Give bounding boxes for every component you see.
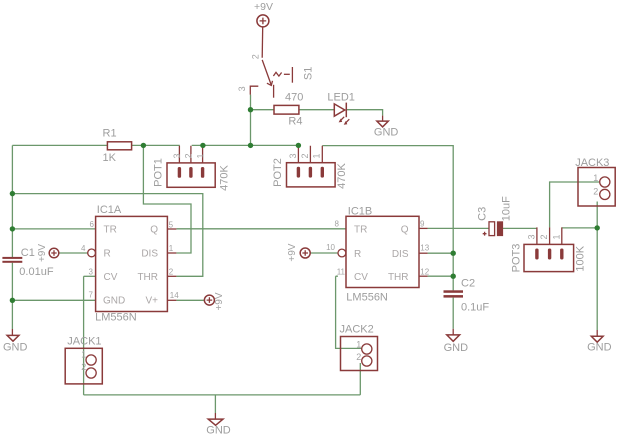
IC1A pin stub 2 THR <box>167 275 176 277</box>
wire main horizontal left segment <box>12 144 107 146</box>
svg-text:THR: THR <box>137 272 158 283</box>
capacitor C3 polarized plates <box>489 222 495 236</box>
svg-text:2: 2 <box>184 153 194 158</box>
svg-text:C2: C2 <box>461 277 475 289</box>
svg-text:GND: GND <box>587 342 612 354</box>
potentiometer POT3 box <box>524 244 574 271</box>
POT3 pin stubs <box>537 227 562 244</box>
switch S1 lever <box>262 60 271 85</box>
JACK2 pin 2 circle <box>362 356 372 366</box>
svg-text:Q: Q <box>150 225 158 236</box>
svg-text:POT2: POT2 <box>272 158 284 187</box>
wire left vertical lower <box>11 263 13 329</box>
switch S1 fixed contact <box>273 85 275 98</box>
svg-text:V+: V+ <box>145 296 158 307</box>
svg-text:13: 13 <box>420 244 429 253</box>
svg-text:POT1: POT1 <box>153 158 165 187</box>
svg-text:CV: CV <box>354 272 368 283</box>
wire IC1A Q to IC1B TR <box>176 228 346 230</box>
svg-text:470: 470 <box>285 92 303 104</box>
IC1B R inversion bubble pin 10 <box>338 249 346 257</box>
power +9V at IC1B R <box>300 248 310 258</box>
svg-text:6: 6 <box>90 220 95 229</box>
svg-text:CV: CV <box>104 272 118 283</box>
svg-text:GND: GND <box>103 296 125 307</box>
svg-text:+9V: +9V <box>214 292 225 310</box>
wire THR1 net <box>12 194 202 277</box>
wire LED1 to GND corner <box>346 110 382 116</box>
svg-text:DIS: DIS <box>141 249 158 260</box>
svg-text:JACK3: JACK3 <box>575 157 609 169</box>
svg-text:3: 3 <box>89 268 94 277</box>
wire POT3 pin2 to JACK3 pin1 <box>550 182 599 227</box>
wire IC1B Q to C3 <box>428 227 489 229</box>
svg-text:+9V: +9V <box>287 243 298 261</box>
JACK3 pin 2 circle <box>600 189 610 199</box>
svg-text:100K: 100K <box>575 245 587 271</box>
svg-text:+9V: +9V <box>254 1 273 13</box>
capacitor C3 plus mark <box>483 232 487 236</box>
wire TR1 <box>12 228 95 230</box>
wire main horizontal R1-to-POT1 <box>132 144 180 146</box>
IC1B pin stub 13 DIS <box>419 252 428 254</box>
ground bottom center <box>214 413 216 419</box>
JACK2 pin 1 circle <box>362 344 372 354</box>
op-amp/IC box IC1B <box>346 216 419 287</box>
svg-text:C1: C1 <box>21 247 35 259</box>
svg-text:THR: THR <box>388 272 409 283</box>
POT1 pin stubs <box>179 146 202 163</box>
potentiometer POT1 box <box>167 163 215 187</box>
svg-text:+9V: +9V <box>37 244 48 262</box>
svg-text:2: 2 <box>250 54 260 59</box>
switch S1 pin3 bracket <box>250 86 258 94</box>
wire CV2 to JACK2 pin1 <box>336 276 362 348</box>
svg-text:3: 3 <box>288 153 298 158</box>
IC1A pin stub 14 V+ <box>167 299 176 301</box>
wire main horizontal POT1pin2-to-POT2pin3 <box>192 144 299 146</box>
ground right below JACK3 <box>596 330 598 336</box>
svg-text:LM556N: LM556N <box>95 311 137 323</box>
svg-text:C3: C3 <box>477 207 489 221</box>
JACK1 pin 1 circle <box>86 355 96 365</box>
svg-text:11: 11 <box>337 268 346 277</box>
IC1B pin stub 12 THR <box>419 275 428 277</box>
svg-text:1: 1 <box>551 234 561 239</box>
jack JACK2 box <box>341 337 378 371</box>
svg-text:JACK2: JACK2 <box>340 323 374 335</box>
power +9V at IC1A R <box>49 248 59 258</box>
svg-text:3: 3 <box>526 234 536 239</box>
wire R4 to LED1 <box>299 109 334 111</box>
svg-text:5: 5 <box>169 221 174 230</box>
resistor R4 body <box>274 105 299 114</box>
svg-text:Q: Q <box>401 224 409 235</box>
IC1B pin stub 9 Q <box>419 227 428 229</box>
wire below C2 <box>452 298 454 329</box>
svg-text:1: 1 <box>312 153 322 158</box>
svg-text:0.01uF: 0.01uF <box>19 266 54 278</box>
IC1A R inversion bubble pin 4 <box>88 249 96 257</box>
wire switch to main wire <box>250 95 252 146</box>
svg-text:2: 2 <box>81 362 86 372</box>
svg-text:S1: S1 <box>302 67 314 80</box>
wire right vertical JACK3 pin2 to GND <box>596 202 598 331</box>
svg-text:POT3: POT3 <box>511 244 523 273</box>
wire JACK2 pin2 riser <box>359 363 361 395</box>
svg-text:LM556N: LM556N <box>346 292 388 304</box>
svg-text:GND: GND <box>206 425 231 437</box>
svg-text:IC1B: IC1B <box>348 206 372 218</box>
svg-text:2: 2 <box>169 268 174 277</box>
svg-text:1: 1 <box>81 349 86 359</box>
svg-text:R: R <box>104 249 111 260</box>
svg-text:LED1: LED1 <box>327 91 355 103</box>
svg-text:1: 1 <box>356 340 361 350</box>
svg-text:TR: TR <box>104 225 117 236</box>
svg-text:JACK1: JACK1 <box>67 336 101 348</box>
wire GND1 pin7 <box>12 299 95 301</box>
svg-text:2: 2 <box>300 153 310 158</box>
POT2 pin bars <box>297 167 300 178</box>
power +9V at IC1A V+ <box>204 295 214 305</box>
svg-text:0.1uF: 0.1uF <box>461 302 489 314</box>
wire left vertical upper <box>11 145 13 257</box>
svg-text:IC1A: IC1A <box>97 204 122 216</box>
wire +9V to IC1A R bubble <box>59 252 88 254</box>
svg-text:10: 10 <box>326 243 335 252</box>
LED1 emission arrows <box>340 117 349 124</box>
wire +9V to IC1B R bubble <box>310 252 338 254</box>
ground left <box>11 329 13 335</box>
svg-text:GND: GND <box>374 126 399 138</box>
wire IC1B THR to vertical <box>428 275 454 277</box>
JACK1 pin 2 circle <box>86 368 96 378</box>
ground below C2 <box>452 329 454 335</box>
wire CV1 horizontal <box>84 275 96 277</box>
switch S1 actuator dash <box>284 73 290 75</box>
svg-text:2: 2 <box>593 187 598 197</box>
svg-text:GND: GND <box>3 342 28 354</box>
svg-text:8: 8 <box>335 220 340 229</box>
wire CV1 vertical to JACK1 <box>83 276 85 395</box>
wire C3 to POT3 pin3 <box>503 227 537 229</box>
wire POT3 pin1 to right vertical <box>562 227 597 229</box>
svg-text:TR: TR <box>354 224 367 235</box>
wire main horizontal POT2pin1-to-right with vertical drop <box>322 146 453 291</box>
svg-text:3: 3 <box>172 153 182 158</box>
resistor R1 body <box>107 142 131 150</box>
POT1 pin bars <box>178 167 181 178</box>
svg-text:470K: 470K <box>336 162 348 188</box>
capacitor C1 plates <box>2 257 22 259</box>
potentiometer POT2 box <box>287 163 336 187</box>
svg-text:DIS: DIS <box>392 249 409 260</box>
LED1 diode triangle <box>334 104 345 116</box>
svg-text:10uF: 10uF <box>501 196 513 221</box>
wire switch junction to R4 <box>251 109 275 111</box>
wire bottom JACK1 pin2 to JACK2 pin2 <box>84 394 361 396</box>
svg-text:3: 3 <box>237 86 247 91</box>
power +9V top symbol <box>257 15 269 27</box>
svg-text:1: 1 <box>169 244 174 253</box>
jack JACK3 box <box>578 168 615 207</box>
svg-text:R: R <box>354 249 361 260</box>
POT2 pin stubs <box>298 146 322 163</box>
svg-text:R1: R1 <box>103 128 117 140</box>
jack JACK1 box <box>65 348 102 384</box>
svg-text:9: 9 <box>420 220 425 229</box>
op-amp/IC box IC1A <box>96 216 168 311</box>
svg-text:GND: GND <box>444 342 469 354</box>
switch S1 lever tip arrow <box>267 81 273 86</box>
wire IC1A V+ to +9V <box>176 299 204 301</box>
switch S1 actuator zigzag <box>273 72 281 76</box>
svg-text:1: 1 <box>195 153 205 158</box>
svg-text:R4: R4 <box>288 115 302 127</box>
JACK3 pin 1 circle <box>600 177 610 187</box>
svg-text:2: 2 <box>356 352 361 362</box>
svg-text:470K: 470K <box>219 164 231 190</box>
svg-text:4: 4 <box>81 244 86 253</box>
capacitor C2 plates <box>444 290 464 293</box>
IC1A pin stub 5 Q <box>167 228 176 230</box>
LED1 cathode bar <box>345 103 347 118</box>
ground below LED1 <box>382 116 384 122</box>
junction dots <box>141 143 146 148</box>
switch S1 pin2 lead from +9V <box>261 27 264 58</box>
wire IC1B DIS to vertical <box>428 252 454 254</box>
svg-text:12: 12 <box>420 267 429 276</box>
svg-text:1: 1 <box>593 173 598 183</box>
svg-text:2: 2 <box>539 234 549 239</box>
svg-text:1K: 1K <box>103 152 117 164</box>
wire DIS1 net <box>143 145 191 253</box>
switch S1 actuator bar <box>291 67 293 83</box>
svg-text:7: 7 <box>89 291 94 300</box>
svg-text:14: 14 <box>170 291 179 300</box>
wire bottom GND drop <box>214 395 216 413</box>
POT3 pin bars <box>535 249 538 260</box>
IC1A pin stub 1 DIS <box>167 252 176 254</box>
